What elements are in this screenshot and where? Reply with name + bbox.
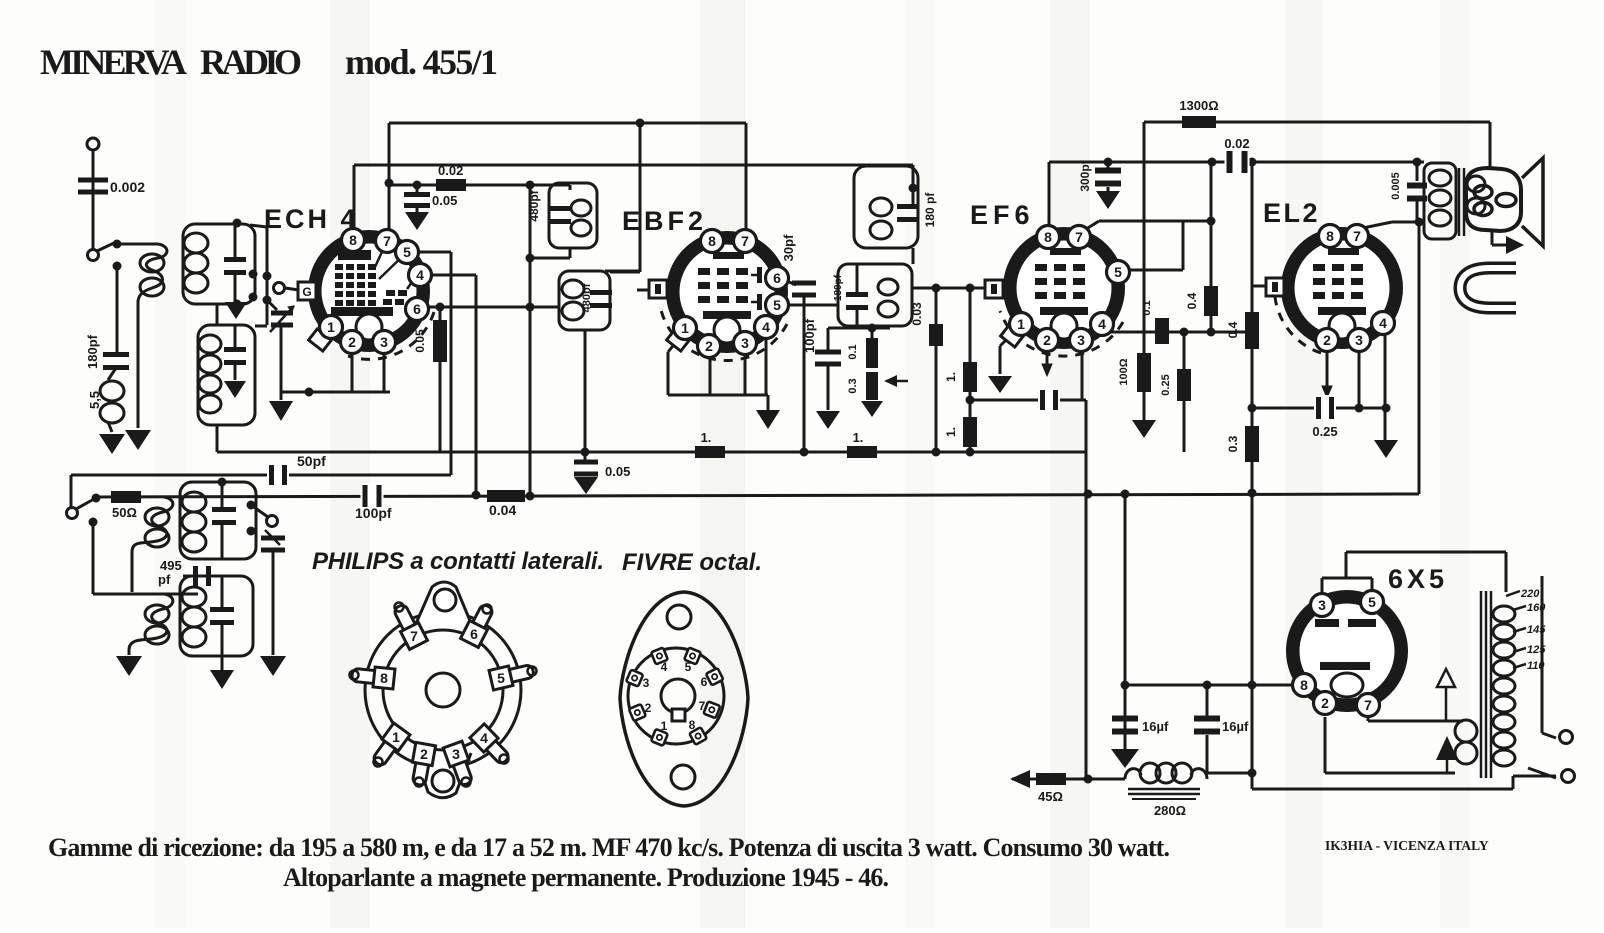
svg-text:5: 5: [1368, 594, 1376, 610]
svg-text:0.05: 0.05: [432, 193, 457, 208]
svg-text:0.05: 0.05: [605, 464, 630, 479]
svg-text:100Ω: 100Ω: [1118, 358, 1130, 385]
svg-text:1: 1: [661, 719, 668, 733]
svg-text:0.25: 0.25: [1160, 374, 1172, 395]
svg-text:7: 7: [1364, 697, 1372, 713]
svg-text:2: 2: [1321, 695, 1329, 711]
svg-text:FIVRE octal.: FIVRE octal.: [622, 549, 762, 576]
svg-text:16µf: 16µf: [1222, 719, 1249, 734]
svg-text:110: 110: [1527, 660, 1545, 672]
svg-text:45Ω: 45Ω: [1038, 789, 1063, 804]
svg-text:MINERVA: MINERVA: [40, 42, 187, 82]
svg-text:5: 5: [403, 244, 411, 260]
svg-text:5: 5: [497, 670, 505, 686]
svg-text:160: 160: [1527, 602, 1546, 614]
svg-text:7: 7: [1075, 229, 1083, 245]
svg-text:8: 8: [380, 670, 388, 686]
svg-text:1: 1: [681, 320, 689, 336]
svg-text:7: 7: [1353, 228, 1361, 244]
svg-text:2: 2: [348, 334, 356, 350]
svg-text:7: 7: [383, 233, 391, 249]
svg-text:5: 5: [1114, 264, 1122, 280]
svg-text:RADIO: RADIO: [200, 42, 302, 82]
svg-text:7: 7: [741, 233, 749, 249]
svg-text:495: 495: [160, 558, 182, 573]
svg-text:0.002: 0.002: [110, 179, 145, 195]
svg-text:50Ω: 50Ω: [112, 505, 137, 520]
svg-text:EBF2: EBF2: [622, 206, 707, 236]
svg-text:EF6: EF6: [970, 200, 1035, 230]
svg-text:IK3HIA - VICENZA ITALY: IK3HIA - VICENZA ITALY: [1325, 838, 1489, 853]
svg-text:280Ω: 280Ω: [1154, 803, 1186, 818]
svg-text:1.: 1.: [853, 430, 864, 445]
svg-text:1.: 1.: [701, 430, 712, 445]
svg-text:0.02: 0.02: [1224, 136, 1249, 151]
svg-text:8: 8: [1326, 228, 1334, 244]
svg-text:6: 6: [470, 626, 478, 642]
svg-text:125: 125: [1527, 644, 1546, 656]
svg-text:8: 8: [349, 232, 357, 248]
svg-text:5,5: 5,5: [87, 391, 102, 409]
svg-text:220: 220: [1520, 588, 1540, 600]
svg-text:2: 2: [645, 701, 652, 715]
svg-text:7: 7: [699, 699, 706, 713]
svg-text:1.: 1.: [944, 372, 958, 382]
svg-text:mod. 455/1: mod. 455/1: [345, 42, 498, 82]
svg-text:3: 3: [1318, 597, 1326, 613]
svg-text:8: 8: [1044, 229, 1052, 245]
svg-text:0.04: 0.04: [489, 502, 516, 518]
svg-text:Altoparlante a magnete permane: Altoparlante a magnete permanente. Produ…: [283, 863, 889, 892]
svg-text:0.1: 0.1: [847, 344, 859, 359]
svg-text:3: 3: [643, 676, 650, 690]
svg-text:0.02: 0.02: [438, 163, 463, 178]
svg-text:0.005: 0.005: [1390, 172, 1402, 200]
svg-text:300pf: 300pf: [1078, 159, 1092, 191]
svg-text:4: 4: [1379, 315, 1387, 331]
svg-text:4: 4: [1098, 316, 1106, 332]
svg-text:3: 3: [1077, 332, 1085, 348]
svg-text:0.4: 0.4: [1185, 292, 1199, 309]
svg-text:180pf: 180pf: [85, 334, 100, 369]
svg-text:50pf: 50pf: [297, 453, 326, 469]
svg-text:Gamme di ricezione: da 195 a 5: Gamme di ricezione: da 195 a 580 m, e da…: [48, 833, 1170, 862]
svg-text:2: 2: [705, 338, 713, 354]
svg-text:1: 1: [327, 319, 335, 335]
svg-text:8: 8: [689, 718, 696, 732]
svg-text:6: 6: [701, 675, 708, 689]
svg-text:5: 5: [685, 660, 692, 674]
svg-text:0.1: 0.1: [1141, 300, 1153, 315]
svg-text:100pf: 100pf: [802, 318, 817, 353]
svg-text:0.4: 0.4: [1226, 321, 1240, 338]
svg-text:EL2: EL2: [1263, 198, 1320, 228]
svg-text:0.3: 0.3: [847, 378, 859, 393]
svg-text:7: 7: [410, 628, 418, 644]
svg-text:3: 3: [741, 335, 749, 351]
svg-text:1: 1: [392, 729, 400, 745]
svg-text:6: 6: [413, 301, 421, 317]
svg-text:8: 8: [708, 233, 716, 249]
svg-text:16µf: 16µf: [1142, 719, 1169, 734]
svg-text:3: 3: [380, 334, 388, 350]
svg-text:480pf: 480pf: [527, 189, 541, 221]
svg-text:100pf: 100pf: [355, 505, 392, 521]
svg-text:2: 2: [420, 746, 428, 762]
svg-text:4: 4: [480, 730, 488, 746]
svg-text:5: 5: [773, 297, 781, 313]
svg-text:480pf: 480pf: [581, 283, 593, 312]
svg-text:1.: 1.: [944, 427, 958, 437]
svg-text:180pf: 180pf: [833, 274, 844, 301]
svg-text:1300Ω: 1300Ω: [1179, 98, 1218, 113]
svg-text:PHILIPS a contatti laterali.: PHILIPS a contatti laterali.: [312, 548, 604, 575]
svg-text:180 pf: 180 pf: [923, 192, 937, 228]
svg-text:4: 4: [762, 319, 770, 335]
svg-text:3: 3: [1355, 332, 1363, 348]
svg-text:2: 2: [1323, 332, 1331, 348]
svg-text:2: 2: [1043, 332, 1051, 348]
svg-text:145: 145: [1527, 624, 1546, 636]
svg-text:0.3: 0.3: [1226, 435, 1240, 452]
svg-text:0.03: 0.03: [910, 302, 924, 326]
svg-text:30pf: 30pf: [781, 234, 796, 261]
svg-text:0.25: 0.25: [1312, 424, 1337, 439]
svg-text:4: 4: [416, 267, 424, 283]
svg-text:3: 3: [452, 746, 460, 762]
svg-text:8: 8: [1300, 677, 1308, 693]
svg-text:G: G: [302, 285, 311, 299]
svg-text:6X5: 6X5: [1388, 564, 1448, 594]
svg-text:1: 1: [1017, 316, 1025, 332]
svg-text:ECH 4: ECH 4: [264, 204, 359, 234]
svg-text:pf: pf: [158, 572, 171, 587]
svg-text:6: 6: [773, 270, 781, 286]
svg-text:4: 4: [661, 660, 668, 674]
